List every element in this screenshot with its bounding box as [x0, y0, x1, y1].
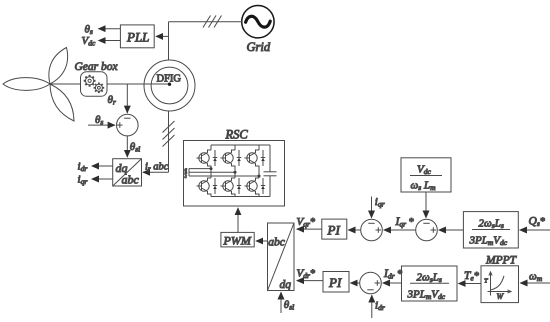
gear box — [81, 72, 108, 97]
block Vdc/wsLm — [401, 158, 451, 192]
svg-text:PLL: PLL — [126, 30, 149, 45]
wire grid horizontal — [169, 21, 242, 23]
wire shaft hub to gearbox — [50, 83, 81, 85]
wire theta_r drop — [126, 84, 128, 113]
wire theta_s input — [88, 124, 115, 126]
svg-text:3PLmVdc: 3PLmVdc — [407, 288, 446, 301]
wind turbine blades — [3, 48, 74, 122]
wire phase c — [185, 175, 261, 181]
svg-text:abc: abc — [122, 173, 140, 187]
svg-text:idr: idr — [78, 161, 88, 174]
wire theta_sl to dq block — [126, 136, 128, 157]
svg-text:iqr: iqr — [78, 174, 88, 187]
svg-text:dq: dq — [280, 279, 292, 291]
svg-text:Iqr *: Iqr * — [395, 216, 414, 229]
wire omega_m input — [520, 282, 550, 284]
svg-text:iqr: iqr — [375, 196, 385, 209]
svg-text:Vdc: Vdc — [417, 164, 431, 177]
svg-text:Te*: Te* — [464, 270, 479, 283]
transistor Q6 — [245, 176, 266, 197]
block dq/abc transform — [113, 159, 142, 187]
block PLL — [120, 25, 154, 48]
wire PLL output V_dc — [99, 40, 121, 42]
svg-text:2ωsLs: 2ωsLs — [479, 218, 504, 231]
machine DFIG — [144, 60, 195, 111]
wire PWM to RSC — [237, 208, 239, 232]
svg-text:θsl: θsl — [284, 299, 294, 312]
wire abc block to PWM — [256, 240, 268, 242]
summing junction S4 — [360, 272, 382, 294]
wire grid line into PLL — [156, 35, 169, 37]
converter RSC box — [184, 141, 285, 207]
svg-text:RSC: RSC — [225, 128, 249, 142]
summing junction S3 — [416, 219, 438, 241]
block gain d-axis — [402, 266, 458, 301]
wire RSC bottom bus — [211, 196, 270, 198]
wire PLL output theta_s — [99, 28, 121, 30]
svg-text:ωm: ωm — [529, 271, 543, 284]
svg-text:Gear box: Gear box — [75, 61, 119, 73]
svg-text:MPPT: MPPT — [485, 255, 518, 267]
transistor Q4 — [197, 169, 218, 197]
wire i_r_abc measurement — [143, 171, 169, 173]
wire Vdc block to sum2 — [425, 192, 427, 218]
svg-text:θr: θr — [108, 94, 116, 107]
svg-text:Grid: Grid — [247, 40, 271, 54]
svg-text:2ωsLs: 2ωsLs — [417, 271, 442, 284]
transistor Q1 — [197, 145, 218, 169]
svg-text:θs: θs — [95, 114, 103, 127]
svg-text:c: c — [185, 175, 188, 180]
svg-text:PI: PI — [327, 222, 341, 237]
svg-text:PWM: PWM — [223, 233, 252, 247]
wire i_qr feedback — [371, 197, 373, 218]
wire Qs* input — [520, 229, 550, 231]
svg-text:Idr *: Idr * — [383, 268, 402, 281]
wire theta_sl bottom input — [280, 292, 282, 313]
summing junction S1 — [117, 114, 139, 136]
block PI q-axis — [322, 219, 347, 239]
transistor Q3 — [245, 145, 266, 176]
wire Te* input — [459, 283, 482, 285]
wire i_dr output — [92, 165, 113, 167]
wire sum4 to PI d — [351, 282, 360, 284]
block MPPT — [481, 266, 519, 303]
svg-text:Vdr*: Vdr* — [297, 268, 315, 281]
wire phase stub tie — [188, 169, 190, 176]
svg-text:Vqr*: Vqr* — [297, 216, 315, 229]
wire DFIG rotor down — [168, 111, 170, 172]
svg-text:abc: abc — [268, 237, 285, 249]
three-phase slash on grid wire — [203, 16, 222, 28]
svg-text:ir abc: ir abc — [145, 162, 169, 174]
wire grid vertical to DFIG — [168, 22, 170, 61]
wire Vqr* to abc block — [297, 228, 322, 230]
three-phase slash on rotor wire — [163, 121, 175, 147]
svg-text:ωs Lm: ωs Lm — [411, 180, 437, 193]
AC source Grid — [242, 6, 274, 38]
wire shaft gearbox to DFIG — [107, 83, 170, 85]
transistor Q2 — [221, 145, 242, 172]
block PI d-axis — [323, 272, 349, 293]
wire RSC top bus — [211, 144, 270, 146]
svg-text:T: T — [484, 279, 488, 285]
svg-text:idr: idr — [375, 300, 385, 313]
wire i_dr feedback — [371, 295, 373, 318]
block abc/dq transform — [268, 223, 295, 291]
svg-text:θsl: θsl — [130, 141, 140, 154]
block PWM — [221, 232, 254, 247]
svg-text:W: W — [497, 292, 505, 301]
wire phase a — [185, 167, 213, 173]
block gain q-axis — [463, 212, 518, 248]
wire Idr* reference — [383, 282, 402, 284]
svg-text:Qs*: Qs* — [529, 216, 545, 229]
wire gain to sum3 — [439, 229, 464, 231]
svg-text:Vdc: Vdc — [82, 35, 96, 48]
wire i_qr output — [92, 178, 113, 180]
wire Iqr* reference — [384, 229, 416, 231]
wire sum1 to PI — [348, 229, 360, 231]
wire Vdr* to dq block — [297, 280, 323, 282]
svg-text:3PLmVdc: 3PLmVdc — [469, 235, 508, 248]
wire phase b — [185, 171, 237, 177]
capacitor C1 — [264, 145, 277, 197]
transistor Q5 — [221, 172, 242, 196]
summing junction S2 — [361, 219, 383, 241]
svg-text:PI: PI — [328, 275, 342, 290]
